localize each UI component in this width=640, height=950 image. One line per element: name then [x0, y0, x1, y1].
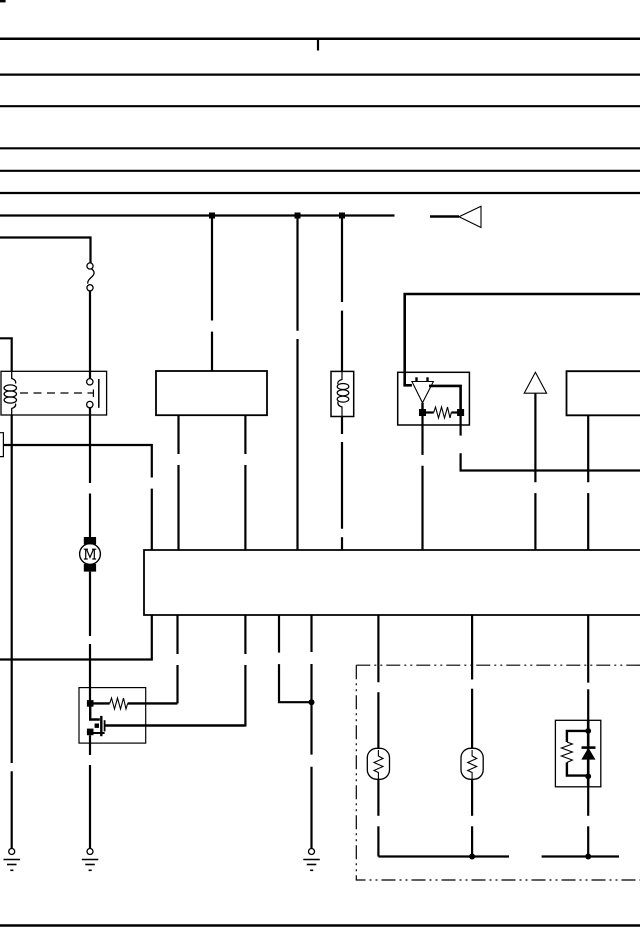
- relay contact upper circle: [87, 379, 93, 385]
- wire y=294 from top right: [405, 294, 640, 385]
- bus line 1: [0, 38, 640, 41]
- FET source elbow: [90, 732, 104, 734]
- FET drain wire: [105, 724, 246, 726]
- connector arrow wire: [430, 215, 459, 218]
- wire box C down to ECU: [587, 415, 589, 482]
- wire motor to FET box: [89, 572, 91, 636]
- box B: [156, 371, 267, 415]
- op-amp U1 box: [398, 372, 470, 425]
- wire B horizontal y=237.5: [0, 238, 91, 264]
- node dot diode bottom: [585, 854, 591, 860]
- wire FET to ground: [89, 735, 91, 755]
- wire op-amp output down: [460, 416, 462, 436]
- bus line 3: [0, 105, 640, 107]
- FET channel bar: [104, 720, 106, 731]
- ground G3: [303, 849, 320, 871]
- op-amp triangle: [412, 382, 434, 403]
- wire bulb 1 down: [377, 779, 379, 816]
- FET node dot top: [87, 700, 94, 707]
- wire node A3 down to coil box: [341, 216, 343, 303]
- FET gate elbow: [90, 706, 100, 720]
- diode box D1: [555, 720, 600, 787]
- diode anode triangle: [582, 749, 594, 760]
- ground G2: [82, 849, 99, 871]
- FET gate resistor: [93, 702, 110, 704]
- op-amp feedback resistor: [426, 411, 434, 413]
- relay R1 box: [1, 371, 107, 415]
- relay contact lower circle: [87, 401, 93, 407]
- FET node dot bottom: [87, 729, 94, 736]
- node dot A1: [209, 213, 215, 219]
- wire A horizontal y=215.5: [0, 214, 395, 216]
- diode cathode bar: [582, 746, 596, 749]
- op-amp output wire: [429, 386, 461, 409]
- wire to relay coil (from left edge): [0, 338, 12, 371]
- ECU bottom stub x=311.5 to ground: [310, 615, 312, 652]
- left edge connector box: [0, 433, 3, 457]
- diode node dot bottom: [585, 773, 591, 779]
- relay link tick: [92, 390, 94, 398]
- wire ECU to bulb 1: [377, 615, 379, 682]
- relay dashed link: [20, 392, 93, 394]
- motor M1: [84, 537, 96, 544]
- box B stub 1 down: [177, 415, 179, 454]
- wire diode box down: [587, 787, 589, 816]
- wire node A1 to box B: [211, 216, 213, 321]
- bottom wire segment 2: [542, 855, 619, 857]
- FET box Q1: [79, 688, 146, 744]
- relay coil: [12, 371, 16, 383]
- bus line 2: [0, 73, 640, 75]
- box B stub 2 down: [244, 415, 246, 454]
- box C: [567, 371, 640, 415]
- wire op-amp to ECU: [421, 416, 423, 455]
- wire coil box down to ECU: [341, 417, 343, 435]
- op-amp apex wire: [421, 403, 423, 413]
- ECU long box: [144, 550, 640, 615]
- page corner mark: [0, 0, 6, 2]
- node dot junction x=311.5: [309, 699, 315, 705]
- circuit breaker curve: [88, 269, 94, 284]
- wire relay contact to motor: [89, 408, 91, 483]
- bus line 5: [0, 170, 640, 172]
- wire bulb 2 down: [471, 779, 473, 816]
- page bottom rule: [0, 924, 640, 927]
- tick on bus line 1: [317, 39, 319, 51]
- circuit breaker lower terminal: [87, 285, 93, 291]
- triangle symbol T1: [524, 372, 546, 393]
- wire relay coil to ground (x=11.7): [11, 415, 13, 763]
- ECU bottom stub x=152 elbow to left: [0, 615, 152, 660]
- coil box L1: [331, 371, 354, 416]
- bottom wire segment 1: [378, 855, 509, 857]
- FET arrow square: [95, 724, 99, 728]
- wire C dashed continuation down to ECU: [151, 489, 153, 550]
- op-amp node dot 1: [419, 409, 426, 416]
- diode main vertical: [587, 720, 590, 787]
- op-amp top tick 1: [415, 377, 417, 381]
- ground G1: [4, 849, 21, 871]
- node dot bulb2 bottom: [469, 854, 475, 860]
- wire breaker to relay contact: [89, 291, 91, 379]
- ECU bottom stub x=245.4: [244, 615, 246, 654]
- coil L1 winding: [338, 371, 342, 384]
- bulb B2: [461, 748, 483, 779]
- circuit breaker upper terminal: [87, 263, 93, 269]
- diode node dot top: [585, 728, 591, 734]
- ECU bottom stub x=279 elbow: [278, 615, 280, 653]
- op-amp input elbow: [405, 383, 412, 385]
- connector arrow triangle: [459, 206, 481, 227]
- FET gate bar: [100, 716, 102, 736]
- relay contact bar: [98, 379, 100, 408]
- op-amp top tick 2: [426, 377, 428, 381]
- wire C horizontal y=445: [3, 445, 151, 478]
- dash-dot boundary box left and bottom edges: [356, 665, 640, 880]
- bus line 6: [0, 192, 640, 194]
- bulb B1: [367, 748, 389, 779]
- wire ECU to bulb 2: [471, 615, 473, 680]
- ECU bottom stub x=177.5: [176, 615, 178, 654]
- wire triangle to ECU: [534, 393, 536, 482]
- op-amp node dot 2: [457, 409, 464, 416]
- node dot A2: [295, 213, 301, 219]
- bus line 4: [0, 147, 640, 149]
- dash-dot boundary box top edge: [356, 664, 640, 666]
- wire node A2 down to ECU: [296, 216, 298, 331]
- wire ECU to diode box: [587, 615, 589, 683]
- diode resistor branch: [567, 731, 588, 742]
- node dot A3: [339, 213, 345, 219]
